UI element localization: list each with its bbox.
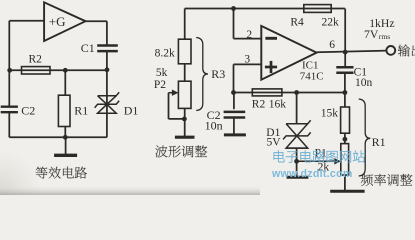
svg-text:R1: R1 bbox=[372, 135, 386, 149]
svg-text:C2: C2 bbox=[21, 103, 35, 117]
svg-text:R3: R3 bbox=[211, 67, 225, 81]
svg-text:www.dzdlt.com: www.dzdlt.com bbox=[271, 168, 353, 180]
svg-text:rms: rms bbox=[379, 32, 390, 41]
svg-text:6: 6 bbox=[329, 39, 335, 51]
svg-text:R2: R2 bbox=[29, 54, 43, 66]
svg-text:16k: 16k bbox=[269, 98, 287, 110]
svg-text:R1: R1 bbox=[74, 103, 88, 117]
svg-text:15k: 15k bbox=[321, 108, 339, 120]
svg-text:22k: 22k bbox=[322, 16, 340, 28]
svg-text:10n: 10n bbox=[355, 77, 373, 89]
svg-text:R2: R2 bbox=[252, 98, 266, 110]
svg-text:D1: D1 bbox=[124, 103, 139, 117]
svg-text:10n: 10n bbox=[205, 119, 223, 133]
svg-text:3: 3 bbox=[244, 53, 250, 65]
svg-text:+G: +G bbox=[49, 14, 66, 29]
svg-text:5k: 5k bbox=[156, 67, 168, 79]
svg-text:2: 2 bbox=[246, 29, 252, 41]
svg-text:741C: 741C bbox=[300, 71, 324, 83]
svg-text:8.2k: 8.2k bbox=[155, 47, 175, 59]
svg-text:C1: C1 bbox=[81, 41, 95, 55]
svg-text:R4: R4 bbox=[290, 16, 304, 28]
svg-text:7V: 7V bbox=[364, 28, 379, 41]
svg-text:5V: 5V bbox=[267, 137, 282, 149]
svg-text:P2: P2 bbox=[154, 79, 166, 91]
